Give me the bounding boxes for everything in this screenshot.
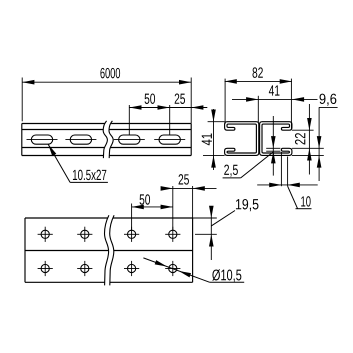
slot at x=42.0 <box>31 135 52 144</box>
text 9,6 <box>320 94 337 106</box>
arrow 50 right / 25 left <box>158 105 170 110</box>
rail upper lip line <box>22 129 191 131</box>
arrow 6000 left <box>22 80 34 85</box>
ext line 82 right <box>290 79 292 130</box>
slot at x=80.9 <box>70 135 91 144</box>
dim line 9,6 <box>318 107 320 181</box>
ext line top edge <box>208 121 225 123</box>
ext line hole4 <box>172 186 174 230</box>
text 50 (top view) <box>140 194 150 204</box>
ext line bottom lip <box>292 147 324 149</box>
rail bottom edge <box>22 155 191 157</box>
view right edge <box>192 218 194 282</box>
leader 10 <box>288 186 298 209</box>
ext line hole3 <box>131 204 133 231</box>
arrow 9,6 top (outside) <box>317 136 322 148</box>
ext line 82 left <box>224 79 226 124</box>
slot at x=129.3 <box>119 135 140 144</box>
rail left end edge <box>21 124 23 156</box>
ext line hole row <box>195 233 217 235</box>
top view break symbol <box>107 215 111 285</box>
text 41 <box>269 85 280 95</box>
arrow 25 right (outside) <box>191 105 203 110</box>
dim line 25 <box>164 187 217 189</box>
hole at (131.6,268.5) <box>128 264 136 272</box>
arrow 82 right <box>280 79 292 84</box>
view left edge <box>24 218 26 282</box>
arrow 50 left <box>132 205 144 210</box>
arrow 41v bottom (outside) <box>211 155 216 167</box>
dim line 10 <box>257 184 318 186</box>
ext line bottom edge <box>203 154 225 156</box>
text 22 rotated <box>295 133 305 144</box>
arrow 41v top (outside) <box>211 110 216 122</box>
slot at x=169.7 <box>159 135 180 144</box>
text 41 rotated <box>202 133 212 145</box>
rail top edge <box>22 123 191 125</box>
arrow 22 top (outside) <box>307 118 312 130</box>
dim line 19,5 <box>210 209 212 261</box>
leader line Ø10,5 <box>143 258 209 282</box>
ext line lip free end <box>280 152 282 186</box>
hole at (84.8,234.3) <box>81 230 89 238</box>
arrow 2,5 top (outside) <box>271 136 276 148</box>
arrow 19,5 bottom (outside) <box>209 234 214 246</box>
dim line 22 <box>308 104 310 175</box>
dim line 2,5 <box>272 116 274 176</box>
hole at (172.8,268.5) <box>169 264 177 272</box>
underline 2,5 <box>223 177 241 179</box>
hole at (45.2,268.5) <box>41 264 49 272</box>
leader 2,5 <box>241 152 274 178</box>
arrow 82 left <box>225 79 237 84</box>
text 82 <box>252 67 262 77</box>
arrow 50 right <box>161 205 173 210</box>
arrow 25 right (outside) <box>193 186 205 191</box>
text 6000 <box>100 68 120 78</box>
underline Ø10,5 <box>209 281 244 283</box>
view top edge <box>25 217 193 219</box>
arrow 19,5 top (outside) <box>209 206 214 218</box>
arrow at hole upper-left <box>155 260 167 266</box>
arrow 2,5 bottom (outside) <box>271 151 276 163</box>
ext line middle web <box>257 96 259 122</box>
underline 9,6 <box>319 106 338 108</box>
hole at (45.2,234.3) <box>41 230 49 238</box>
text 10 <box>301 196 310 206</box>
underline 10 <box>296 208 312 210</box>
leader 19,5 <box>211 211 235 226</box>
rail lower lip line <box>22 147 191 149</box>
ext line slot3 center <box>128 105 130 135</box>
arrow 10 left (outside) <box>269 183 281 188</box>
dim line 6000 <box>22 81 191 83</box>
ext line lip face <box>287 157 289 187</box>
rail right end edge <box>190 124 192 156</box>
hole at (84.8,268.5) <box>81 264 89 272</box>
ext line top lip <box>292 129 314 131</box>
arrow at hole lower-right <box>179 271 191 277</box>
dim line 41 <box>232 98 318 100</box>
text 2,5 <box>224 165 238 177</box>
thickness stub upper <box>266 147 280 149</box>
arrow at slot <box>48 144 56 156</box>
text 25 <box>175 93 185 103</box>
arrow 9,6 bottom (outside) <box>317 155 322 167</box>
arrow 10 right (outside) <box>288 183 300 188</box>
arrow 50 left <box>129 105 141 110</box>
side view break symbol <box>106 121 110 158</box>
view middle joint line <box>25 250 193 252</box>
arrow 6000 right <box>179 80 191 85</box>
ext line slot4 center <box>169 105 171 135</box>
dim line 50 <box>132 206 173 208</box>
dim line 82 <box>225 80 292 82</box>
hole at (131.6,234.3) <box>128 230 136 238</box>
view bottom edge <box>25 281 193 283</box>
ext line view top <box>193 217 217 219</box>
text Ø10,5 <box>212 269 241 282</box>
arrow 22 bottom (outside) <box>307 148 312 160</box>
ext line right end of rail <box>190 78 192 124</box>
hole at (172.8,234.3) <box>169 230 177 238</box>
leader 10.5x27 <box>48 144 70 182</box>
arrow 41 right (outside) <box>292 97 304 102</box>
dim line 41 vertical <box>213 109 215 170</box>
dim line 50/25 <box>129 107 207 109</box>
right chamber (C opening right) <box>260 122 292 156</box>
ext line bottom edge right <box>292 154 324 156</box>
thickness stub lower <box>266 150 280 152</box>
arrow 41 left (outside) <box>246 97 258 102</box>
text 19,5 <box>236 199 259 211</box>
ext line left end of rail <box>21 78 23 122</box>
text 10.5x27 <box>73 170 106 180</box>
left chamber (C opening left) <box>225 122 259 156</box>
underline 10.5x27 <box>70 181 108 183</box>
ext line rail end <box>192 186 194 218</box>
arrow 25 left (outside) <box>161 186 173 191</box>
text 25 (top view) <box>179 174 189 184</box>
text 50 <box>145 93 155 103</box>
